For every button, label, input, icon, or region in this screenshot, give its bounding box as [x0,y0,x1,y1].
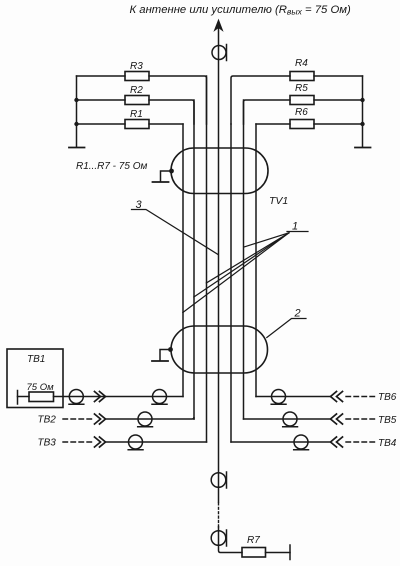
svg-text:ТВ2: ТВ2 [38,415,57,426]
resistor R5 [290,96,314,105]
ferrite bead TB4 [294,435,308,449]
wire: winding line 7 [255,124,257,397]
svg-text:R5: R5 [295,83,308,94]
wire: left bus to R2 [77,99,126,101]
wire: TB5 dashed tail [346,418,375,420]
wire: TB3 dashed tail [63,441,92,443]
transformer TV1 upper core [171,148,268,194]
wire: R5 to bundle [244,100,291,124]
wire: bundle to TB4 [231,441,330,443]
svg-text:К антенне или усилителю (Rвых: К антенне или усилителю (Rвых = 75 Ом) [130,4,351,17]
arrow: output direction [215,20,223,31]
wire: terminal to resistor [18,396,30,398]
terminal in TB1 [17,391,19,405]
wire: left bus [76,76,78,147]
wire: TB6 dashed tail [346,396,375,398]
svg-text:R7: R7 [247,535,260,546]
terminal at R7 [289,545,291,560]
ferrite bead TB2 [138,412,152,426]
wire: TB4 dashed tail [346,441,375,443]
resistor R1 [125,120,149,129]
node: upper core tap [169,169,174,174]
svg-text:R1...R7 - 75 Ом: R1...R7 - 75 Ом [76,161,147,172]
ground: upper core [153,181,169,183]
svg-text:R3: R3 [130,61,143,72]
wire: left bus to R3 [77,75,126,77]
svg-text:TV1: TV1 [269,195,288,207]
wire: output line to antenna [218,24,220,148]
wire: R7 to terminal [266,552,291,554]
ground: lower core [152,360,168,362]
svg-text:ТВ1: ТВ1 [27,354,45,365]
wire: winding line 3 [206,76,208,442]
connector chevrons TB5 [331,414,343,424]
ferrite bead TB3 [129,435,143,449]
transformer TV1 lower core [171,326,268,373]
wire: R4 to bundle [231,76,290,124]
wire: TB2 dashed tail [63,418,92,420]
svg-text:R1: R1 [130,109,143,120]
node: R5 junction on right bus [360,98,364,102]
ferrite bead TB6 [272,390,286,404]
ground: right bus [355,147,371,149]
wire: TB3 to bundle [106,441,207,443]
svg-text:R4: R4 [295,58,308,69]
wire: winding line 6 [243,100,245,419]
wire: TB1 resistor to bundle [54,396,184,398]
wire: bead to R7 [219,527,243,553]
connector chevrons TB4 [331,437,343,447]
connector chevrons TB2 [95,414,106,424]
svg-text:ТВ6: ТВ6 [378,392,397,403]
connector chevrons TB1 [95,392,106,402]
wire: winding line 4 (center) [218,148,220,502]
resistor 75 Ом in TB1 [29,392,54,402]
resistor R7 [242,548,266,558]
wire: R2 to bundle [149,100,194,124]
wire: R3 to bundle [149,76,207,124]
wire: winding line 5 [230,124,232,442]
ferrite bead on output stub (lower) [211,531,226,546]
ferrite bead TB5 [283,412,297,426]
wire: R6 to bundle [256,123,290,125]
wire: winding line 1 [182,124,184,397]
svg-text:1: 1 [292,221,298,233]
wire: R1 to bundle [149,123,183,125]
svg-text:ТВ4: ТВ4 [378,438,397,449]
ferrite bead TB1 b [153,390,167,404]
node: lower core tap [168,347,173,352]
resistor R2 [125,96,149,105]
wire: left bus to R1 [77,123,126,125]
svg-text:2: 2 [294,308,301,320]
box TB1 (TV set 1) [7,349,63,408]
connector chevrons TB6 [331,392,343,402]
resistor R4 [290,72,314,81]
resistor R6 [290,120,314,129]
svg-text:ТВ5: ТВ5 [378,415,397,426]
ferrite bead on output stub (upper) [211,473,226,488]
resistor R3 [125,72,149,81]
wire: dotted continuation [218,503,220,527]
connector chevrons TB3 [95,437,106,447]
ferrite bead on output cable [212,46,226,60]
wire: bundle to TB5 [244,418,331,420]
svg-text:ТВ3: ТВ3 [38,438,57,449]
wire: R6 to right bus [314,123,363,125]
wire: TB2 to bundle [106,417,195,419]
wire: R5 to right bus [314,99,363,101]
wire: right bus [362,76,364,147]
svg-text:R6: R6 [295,107,308,118]
wire: R4 to right bus [314,75,363,77]
wire: winding line 2 [193,100,195,419]
wire: upper core to ground [161,171,172,182]
node: R1 junction on left bus [74,122,78,126]
node: R2 junction on left bus [74,98,78,102]
ferrite bead TB1 a [69,390,83,404]
svg-text:R2: R2 [130,85,143,96]
wire: lower core to ground [160,350,171,361]
wire: bundle to TB6 [256,396,330,398]
node: R6 junction on right bus [360,122,364,126]
ground: left bus [69,147,85,149]
